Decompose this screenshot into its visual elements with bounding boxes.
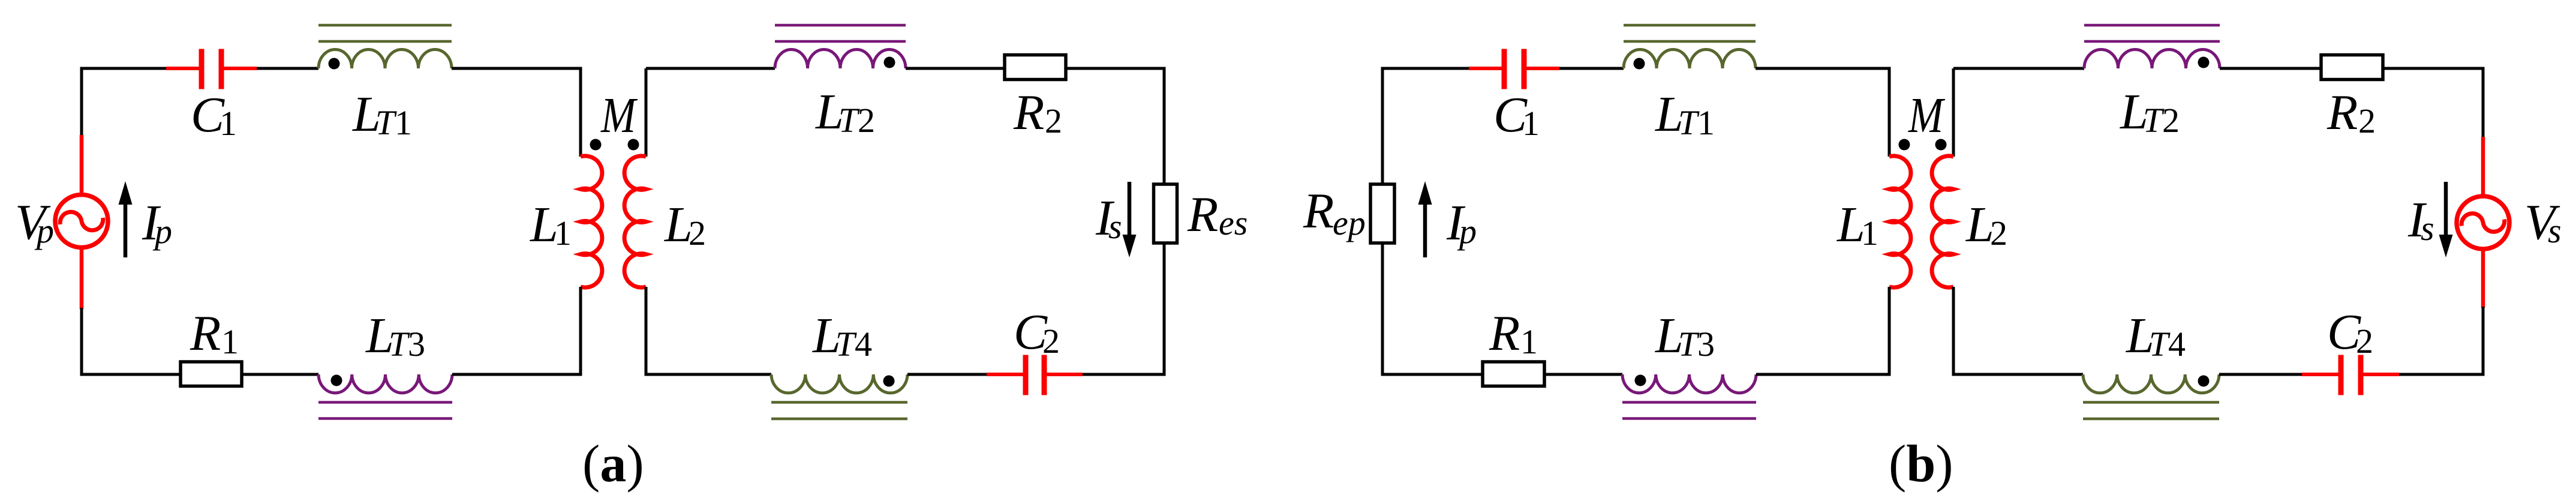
voltage source Vs (b) — [2457, 196, 2509, 249]
svg-text:(a): (a) — [582, 435, 644, 493]
voltage source Vp (a) — [55, 195, 108, 248]
wire transformer L1 bottom lead (b) — [1888, 287, 1891, 376]
svg-text:ep: ep — [1333, 203, 1366, 242]
wire LT4-C2 (a) — [907, 373, 987, 376]
inductor L1 (a) — [581, 156, 602, 287]
capacitor C1 (a) — [166, 67, 202, 70]
inductor L2 (b) — [1932, 156, 1953, 287]
inductor LT1 (a) — [318, 50, 452, 68]
svg-text:R: R — [1187, 187, 1218, 242]
inductor LT3 (b) — [1622, 374, 1756, 393]
wire left upper (b) — [1381, 67, 1384, 185]
wire C1-LT1 (a) — [257, 67, 318, 70]
LT3 phase dot (a) — [331, 375, 342, 386]
svg-text:1: 1 — [221, 322, 239, 361]
svg-text:4: 4 — [2168, 325, 2186, 364]
wire LT2-R2 (b) — [2220, 67, 2321, 70]
inductor LT1 core (b) — [1624, 24, 1756, 27]
inductor LT4 (b) — [2083, 374, 2219, 393]
transformer dot L1 (b) — [1899, 139, 1910, 151]
svg-text:1: 1 — [1697, 103, 1715, 142]
LT1 phase dot (a) — [329, 58, 340, 70]
inductor LT3 (a) — [318, 374, 452, 393]
LT2 phase dot (a) — [884, 57, 895, 68]
wire R1-LT3 (b) — [1544, 373, 1622, 376]
LT2 phase dot (b) — [2198, 57, 2210, 68]
svg-text:(b): (b) — [1889, 435, 1953, 493]
current arrow Is (a) — [1128, 182, 1132, 246]
wire R2-corner (a) — [1066, 67, 1166, 70]
svg-text:2: 2 — [2358, 101, 2376, 140]
inductor LT2 core (b) — [2084, 24, 2220, 27]
wire transformer-LT4 (a) — [646, 373, 771, 376]
wire transformer-LT2 (a) — [646, 67, 775, 70]
wire LT1-transformer (a) — [452, 67, 582, 70]
svg-text:1: 1 — [1520, 322, 1538, 361]
wire LT1-transformer (b) — [1756, 67, 1891, 70]
wire left red lower (a) — [80, 245, 84, 309]
LT4 phase dot (b) — [2198, 376, 2210, 387]
LT4 phase dot (a) — [883, 376, 895, 387]
svg-text:2: 2 — [1042, 322, 1060, 361]
svg-text:s: s — [2421, 209, 2434, 248]
LT1 phase dot (b) — [1634, 58, 1645, 70]
resistor R1 (b) — [1483, 362, 1544, 386]
wire top-left (a) — [80, 67, 167, 70]
current arrow Is (b) — [2444, 182, 2448, 246]
current arrow Ip (b) — [1423, 193, 1427, 258]
svg-text:1: 1 — [220, 104, 237, 143]
svg-text:1: 1 — [1861, 214, 1878, 253]
wire right lower (a) — [1163, 243, 1166, 376]
resistor Res (a) — [1154, 184, 1177, 243]
wire LT3-transformer (b) — [1756, 373, 1889, 376]
current arrow Ip (a) — [124, 193, 128, 258]
inductor LT3 core (a) — [318, 401, 452, 404]
LT3 phase dot (b) — [1635, 375, 1646, 386]
wire transformer L2 bottom lead (a) — [645, 287, 648, 376]
svg-text:T: T — [1678, 103, 1700, 142]
svg-text:p: p — [152, 212, 172, 251]
svg-text:1: 1 — [1522, 104, 1540, 143]
wire LT4-C2 (b) — [2219, 373, 2302, 376]
wire left lower (b) — [1381, 243, 1384, 376]
wire R2-corner (b) — [2383, 67, 2485, 70]
wire right upper (b) — [2482, 68, 2485, 138]
wire right upper (a) — [1163, 68, 1166, 184]
inductor LT2 (a) — [775, 50, 906, 68]
resistor R2 (b) — [2321, 55, 2383, 80]
inductor LT4 (a) — [771, 374, 907, 393]
svg-text:T: T — [2149, 325, 2171, 364]
svg-text:T: T — [838, 101, 860, 140]
capacitor C2 (a) — [987, 373, 1026, 376]
inductor LT1 core (a) — [318, 24, 452, 27]
wire left red upper (a) — [80, 135, 84, 197]
svg-text:T: T — [835, 325, 857, 364]
svg-text:T: T — [2143, 101, 2165, 140]
svg-text:s: s — [1108, 207, 1122, 246]
svg-text:1: 1 — [554, 214, 572, 253]
transformer dot L2 (a) — [628, 139, 639, 151]
wire right red upper (b) — [2481, 137, 2485, 198]
resistor Rep (b) — [1370, 184, 1394, 243]
svg-text:3: 3 — [408, 325, 425, 364]
svg-text:R: R — [1489, 305, 1520, 361]
svg-text:es: es — [1219, 203, 1248, 242]
wire top-left (b) — [1381, 67, 1469, 70]
inductor LT1 (b) — [1624, 50, 1756, 68]
svg-text:3: 3 — [1697, 325, 1715, 364]
wire transformer L1 top lead (a) — [579, 68, 582, 157]
wire bottom-left (b) — [1381, 373, 1483, 376]
wire transformer L1 bottom lead (a) — [579, 287, 582, 376]
wire left upper (a) — [80, 67, 83, 137]
svg-text:4: 4 — [855, 325, 872, 364]
wire C2-corner (b) — [2399, 373, 2483, 376]
svg-text:2: 2 — [2356, 322, 2373, 361]
inductor LT3 core (b) — [1622, 401, 1756, 404]
wire transformer-LT2 (b) — [1953, 67, 2084, 70]
wire right red lower (b) — [2481, 247, 2485, 308]
svg-text:T: T — [1678, 325, 1700, 364]
transformer dot L1 (a) — [590, 139, 602, 151]
inductor LT2 core (a) — [775, 24, 906, 27]
svg-text:M: M — [600, 88, 638, 143]
inductor LT4 core (b) — [2083, 401, 2219, 404]
wire transformer L2 top lead (a) — [645, 68, 648, 157]
svg-text:R: R — [1013, 85, 1044, 140]
svg-text:R: R — [190, 305, 221, 361]
svg-text:T: T — [389, 325, 410, 364]
wire transformer-LT4 (b) — [1953, 373, 2083, 376]
wire R1-LT3 (a) — [242, 373, 318, 376]
inductor LT4 core (a) — [771, 401, 907, 404]
inductor L2 (a) — [624, 156, 646, 287]
svg-text:s: s — [2548, 211, 2562, 250]
wire LT2-R2 (a) — [906, 67, 1005, 70]
svg-text:T: T — [375, 103, 397, 142]
svg-text:2: 2 — [689, 214, 706, 253]
wire LT3-transformer (a) — [452, 373, 581, 376]
capacitor C2 (b) — [2302, 373, 2341, 376]
wire right lower (b) — [2482, 307, 2485, 376]
svg-text:2: 2 — [1045, 101, 1062, 140]
wire C2-corner (a) — [1083, 373, 1164, 376]
svg-text:1: 1 — [395, 103, 412, 142]
transformer dot L2 (b) — [1935, 139, 1947, 151]
resistor R1 (a) — [181, 362, 242, 386]
resistor R2 (a) — [1005, 55, 1066, 80]
svg-text:p: p — [34, 211, 54, 250]
wire transformer L2 bottom lead (b) — [1952, 287, 1955, 376]
inductor L1 (b) — [1889, 156, 1911, 287]
svg-text:p: p — [1457, 212, 1477, 251]
svg-text:R: R — [1303, 183, 1334, 239]
wire bottom-left (a) — [80, 373, 181, 376]
svg-text:2: 2 — [1990, 214, 2007, 253]
wire C1-LT1 (b) — [1559, 67, 1624, 70]
svg-text:2: 2 — [2162, 101, 2180, 140]
wire left lower (a) — [80, 308, 83, 376]
svg-text:R: R — [2326, 85, 2358, 140]
inductor LT2 (b) — [2084, 50, 2220, 68]
wire transformer L1 top lead (b) — [1888, 68, 1891, 157]
svg-text:M: M — [1908, 88, 1945, 143]
svg-text:2: 2 — [858, 101, 875, 140]
wire transformer L2 top lead (b) — [1952, 68, 1955, 157]
capacitor C1 (b) — [1469, 67, 1504, 70]
